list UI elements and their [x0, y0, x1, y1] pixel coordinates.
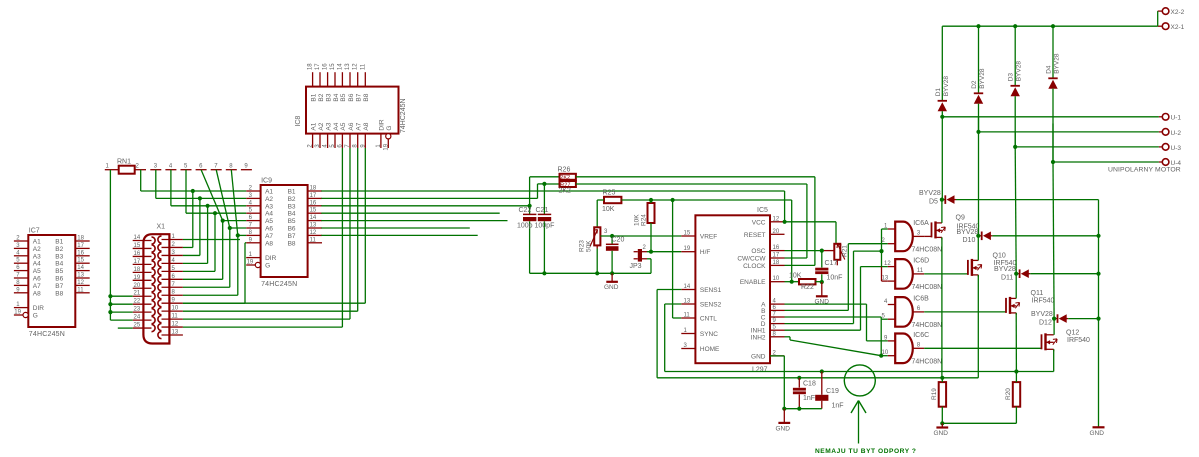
junction C18 top	[797, 376, 801, 380]
wire right rail to GND	[1098, 200, 1100, 427]
wire net B4 row dangling	[321, 212, 499, 214]
wire R27 to CW/CCW	[576, 183, 807, 185]
svg-text:74HC08N: 74HC08N	[912, 247, 943, 254]
wire RN1 pin 4 to row A3	[170, 170, 172, 206]
svg-text:BYV28: BYV28	[1031, 311, 1053, 318]
diode D1 BYV28	[938, 100, 947, 102]
svg-text:B6: B6	[55, 276, 63, 283]
wire R20 leads	[1015, 372, 1017, 383]
svg-text:VREF: VREF	[700, 234, 717, 241]
svg-text:12: 12	[884, 261, 891, 267]
IC7 pin 5 (A4)	[14, 262, 28, 264]
X1 pin 3	[162, 254, 183, 256]
svg-text:IC9: IC9	[261, 178, 272, 185]
svg-text:12: 12	[310, 230, 317, 236]
wire X1 pin 7 to row A6	[183, 286, 230, 288]
wire RN1 pin 1 down	[109, 170, 111, 320]
svg-text:11: 11	[360, 63, 366, 70]
IC5 pin 20 (RESET)	[770, 233, 785, 235]
svg-text:11: 11	[310, 237, 317, 243]
wire INH2 diagonal to IC6C.10	[785, 336, 791, 338]
X1 pin 22	[133, 303, 152, 305]
wire D5 anode to right rail	[956, 199, 1099, 201]
svg-text:A4: A4	[33, 261, 41, 268]
svg-text:A7: A7	[356, 122, 363, 130]
svg-text:74HC08N: 74HC08N	[912, 284, 943, 291]
svg-text:12: 12	[77, 280, 84, 286]
svg-text:CLOCK: CLOCK	[743, 263, 766, 270]
svg-text:B6: B6	[288, 226, 296, 233]
svg-text:B4: B4	[333, 93, 340, 101]
svg-text:C21: C21	[536, 207, 549, 214]
IC5 pin 12 (VCC)	[770, 221, 785, 223]
wire RN1 pin 2 to row A1	[140, 170, 142, 191]
svg-text:9: 9	[244, 164, 248, 170]
svg-text:1nF: 1nF	[803, 395, 815, 402]
svg-text:U-1: U-1	[1171, 115, 1182, 122]
svg-text:20: 20	[773, 229, 780, 235]
svg-text:3: 3	[604, 229, 608, 235]
svg-text:A5: A5	[265, 218, 273, 225]
svg-text:RESET: RESET	[744, 232, 766, 239]
RN1 pin 1	[105, 169, 119, 171]
wire VCC net	[784, 191, 786, 222]
X1 pin 9	[162, 302, 183, 304]
svg-text:DIR: DIR	[33, 305, 45, 312]
svg-text:C19: C19	[826, 388, 839, 395]
svg-text:A2: A2	[318, 122, 325, 130]
IC5 pin 13 (SENS2)	[681, 303, 695, 305]
IC6B pin 4	[888, 304, 895, 306]
IC IC8 74HC245N body (rotated)	[306, 87, 399, 134]
wire IC5 GND down	[770, 355, 784, 357]
svg-text:19: 19	[247, 260, 254, 266]
svg-text:14: 14	[684, 284, 691, 290]
X1 pin 2	[162, 246, 183, 248]
wire RN1 pin 7 to row A6	[216, 170, 230, 228]
svg-text:3: 3	[917, 230, 921, 236]
IC7 pin 7 (A6)	[14, 277, 28, 279]
svg-text:D2: D2	[971, 80, 978, 89]
svg-text:14: 14	[77, 265, 84, 271]
wire net B7 row dangling	[321, 234, 477, 236]
IC9 pin 2 (A1)	[246, 190, 260, 192]
AND gate IC6D 74HC08N	[895, 259, 913, 289]
X1 pin 10	[162, 310, 183, 312]
svg-text:2K2: 2K2	[559, 187, 572, 194]
wire X1 pin 25 stub	[118, 327, 133, 329]
X1 pin 18	[133, 271, 152, 273]
IC7 pin 4 (A3)	[14, 255, 28, 257]
IC9 pin 6 (A5)	[246, 220, 260, 222]
svg-text:6: 6	[199, 164, 203, 170]
svg-text:C18: C18	[803, 381, 816, 388]
svg-text:A1: A1	[310, 122, 317, 130]
svg-text:U-2: U-2	[1171, 130, 1182, 137]
junction D5 cathode	[940, 198, 944, 202]
svg-text:R20: R20	[1005, 388, 1012, 400]
transistor Q10 IRF540	[924, 273, 968, 275]
svg-text:15: 15	[134, 243, 141, 249]
X1 pin 21	[133, 295, 152, 297]
svg-text:R25: R25	[603, 189, 616, 196]
svg-text:17: 17	[134, 259, 141, 265]
X1 pin 23	[133, 311, 152, 313]
svg-text:ENABLE: ENABLE	[740, 279, 766, 286]
IC5 pin 11 (CNTL)	[681, 317, 695, 319]
svg-text:X2-1: X2-1	[1171, 24, 1185, 31]
wire R26 to CLOCK	[576, 176, 815, 178]
svg-text:74HC08N: 74HC08N	[912, 359, 943, 366]
junction	[108, 294, 112, 298]
svg-text:B3: B3	[288, 203, 296, 210]
wire R20 bottom to R19 bottom	[942, 422, 1016, 424]
junction CNTL/R25 row	[671, 198, 675, 202]
IC IC9 74HC245N body	[261, 185, 308, 277]
wire rail to D1	[941, 26, 943, 101]
diode D12 BYV28	[1057, 314, 1059, 323]
IC8 pin 9 (A8)	[364, 134, 366, 148]
svg-text:5: 5	[184, 164, 188, 170]
svg-text:4: 4	[884, 299, 888, 305]
terminal U-1	[942, 116, 1159, 118]
IC IC5 L297 body	[695, 215, 770, 363]
junction D11 cathode	[1014, 272, 1018, 276]
svg-text:CW/CCW: CW/CCW	[737, 256, 766, 263]
svg-text:C22: C22	[519, 207, 532, 214]
svg-text:Q12: Q12	[1066, 330, 1079, 337]
ground GND under R19	[941, 423, 943, 427]
X1 pin 24	[133, 319, 152, 321]
svg-text:10K: 10K	[634, 214, 641, 226]
svg-text:19: 19	[134, 275, 141, 281]
svg-text:IC6D: IC6D	[913, 258, 929, 265]
wire D4 down	[1052, 89, 1054, 162]
IC7 pin 17 (B2)	[75, 247, 89, 249]
wire phase2 column	[978, 117, 980, 132]
svg-text:D12: D12	[1039, 319, 1052, 326]
AND gate IC6A 74HC08N	[895, 222, 913, 252]
svg-text:16: 16	[77, 250, 84, 256]
junction C20 top	[610, 234, 614, 238]
svg-text:X2-2: X2-2	[1171, 9, 1185, 16]
wire D12 anode to right rail	[1068, 318, 1098, 320]
IC6D pin 13	[888, 280, 895, 282]
svg-text:17: 17	[310, 193, 317, 199]
wire R19 leads	[941, 378, 943, 382]
svg-text:10: 10	[172, 306, 179, 312]
IC8 pin 4 (A3)	[327, 134, 329, 148]
svg-text:10: 10	[773, 276, 780, 282]
terminal U-4	[1053, 161, 1159, 163]
svg-text:B5: B5	[340, 93, 347, 101]
svg-text:10nF: 10nF	[827, 275, 843, 282]
X1 pin 5	[162, 270, 183, 272]
svg-text:15: 15	[330, 63, 336, 70]
svg-text:8: 8	[917, 342, 921, 348]
svg-text:11: 11	[77, 287, 84, 293]
IC6A output pin 3	[913, 235, 924, 237]
IC9 pin 14 (B5)	[308, 220, 322, 222]
svg-text:B7: B7	[288, 233, 296, 240]
svg-text:B2: B2	[55, 246, 63, 253]
svg-text:21: 21	[134, 291, 141, 297]
annotation circle	[844, 365, 875, 396]
svg-text:D11: D11	[1001, 274, 1013, 281]
IC7 pin 9 (A8)	[14, 292, 28, 294]
IC8 pin 12 (B7)	[357, 72, 359, 86]
svg-text:A6: A6	[265, 226, 273, 233]
svg-text:R26: R26	[558, 167, 571, 174]
IC9 pin 11 (B8)	[308, 242, 322, 244]
wire R24 top	[650, 200, 652, 203]
IC9 pin 16 (B3)	[308, 205, 322, 207]
svg-text:R19: R19	[931, 388, 938, 400]
svg-text:C17: C17	[825, 260, 838, 267]
svg-text:18: 18	[134, 267, 141, 273]
svg-text:B3: B3	[55, 253, 63, 260]
svg-text:A3: A3	[265, 203, 273, 210]
wire net B6 row dangling	[321, 227, 470, 229]
IC9 pin 12 (B7)	[308, 234, 322, 236]
junction C22/IC9.16	[528, 204, 532, 208]
svg-text:IRF540: IRF540	[1067, 337, 1090, 344]
svg-text:R22: R22	[801, 284, 814, 291]
junction R19 top	[940, 376, 944, 380]
svg-text:B4: B4	[288, 211, 296, 218]
wire Q12 drain	[1053, 319, 1055, 335]
svg-text:10: 10	[882, 350, 889, 356]
wire rail to D2	[978, 26, 980, 93]
trimmer R21	[834, 244, 840, 260]
svg-text:A3: A3	[33, 253, 41, 260]
svg-text:D5: D5	[929, 199, 938, 206]
svg-text:A8: A8	[363, 122, 370, 130]
svg-text:B1: B1	[55, 239, 63, 246]
junction R23 gnd	[595, 271, 599, 275]
diode D11 BYV28	[1019, 269, 1021, 278]
wire X1 pin 4 to row A3	[183, 262, 208, 264]
svg-text:IRF540: IRF540	[1032, 297, 1055, 304]
junction OSC/C17	[820, 249, 824, 253]
IC9 pin 3 (A2)	[246, 197, 260, 199]
IC9 pin 5 (A4)	[246, 212, 260, 214]
capacitor C18 1nF	[798, 378, 800, 388]
resistor R24 10K	[648, 203, 655, 223]
diode D4 BYV28	[1048, 77, 1057, 79]
IC5 pin 5 (INH1)	[770, 329, 785, 331]
wire C17 bottom	[821, 274, 823, 282]
resistor R19	[939, 382, 946, 407]
IC9 pin 8 (A7)	[246, 234, 260, 236]
junction C21 gnd	[542, 271, 546, 275]
junction R20 top	[1014, 369, 1018, 373]
svg-text:SYNC: SYNC	[700, 331, 718, 338]
junction R19 gnd	[940, 421, 944, 425]
svg-text:14: 14	[337, 63, 343, 70]
IC5 pin 16 (OSC)	[770, 250, 785, 252]
wire net B5 row dangling	[321, 220, 507, 222]
IC9 pin 1 (DIR)	[246, 257, 260, 259]
X1 pin 13	[162, 334, 183, 336]
RN1 pin 6 stub	[196, 169, 207, 171]
wire JP3 pin1 to gnd rail	[647, 258, 651, 260]
IC7 pin 8 (A7)	[14, 284, 28, 286]
svg-text:BYV28: BYV28	[919, 190, 941, 197]
wire X1 pin 22	[110, 303, 132, 305]
wire D11 anode to right rail	[1030, 273, 1098, 275]
svg-text:CNTL: CNTL	[700, 316, 717, 323]
svg-text:74HC08N: 74HC08N	[912, 322, 943, 329]
junction row A4	[213, 211, 217, 215]
X1 pin 6	[162, 278, 183, 280]
junction rail/D4	[1051, 24, 1055, 28]
wire R26 left	[530, 176, 560, 178]
IC7 pin 15 (B4)	[75, 262, 89, 264]
svg-text:B3: B3	[325, 93, 332, 101]
svg-text:18: 18	[308, 63, 314, 70]
resistor R22 10K	[799, 279, 816, 284]
IC5 pin 18 (CLOCK)	[770, 264, 785, 266]
ground GND under IC5	[783, 409, 785, 423]
AND gate IC6B 74HC08N	[895, 297, 913, 327]
IC8 pin 17 (B2)	[319, 72, 321, 86]
svg-text:2: 2	[136, 164, 140, 170]
IC7 pin 16 (B3)	[75, 255, 89, 257]
svg-text:23: 23	[134, 307, 141, 313]
svg-text:HOME: HOME	[700, 346, 720, 353]
svg-text:IC6A: IC6A	[913, 220, 929, 227]
svg-text:B6: B6	[348, 93, 355, 101]
IC8 pin 14 (B5)	[341, 72, 343, 86]
svg-text:GND: GND	[934, 430, 949, 437]
svg-text:74HC245N: 74HC245N	[29, 331, 65, 338]
svg-text:A8: A8	[265, 240, 273, 247]
resistor R20	[1013, 382, 1020, 407]
wire RN1 pin 8 to row A7	[231, 170, 238, 236]
svg-text:12: 12	[353, 63, 359, 70]
svg-text:14: 14	[310, 215, 317, 221]
wire JP3 pin2 to H/F	[647, 251, 681, 253]
svg-text:B2: B2	[288, 196, 296, 203]
IC8 pin 8 (A7)	[357, 134, 359, 148]
svg-text:B8: B8	[55, 290, 63, 297]
wire R22 right	[816, 281, 822, 283]
wire ENABLE row	[785, 281, 800, 283]
transistor Q11 IRF540	[924, 311, 1006, 313]
svg-text:10K: 10K	[602, 206, 615, 213]
wire X1 pin 5 to row A4	[183, 270, 215, 272]
junction R25drop/ENABLE	[790, 280, 794, 284]
X1 pin 1	[162, 239, 183, 241]
IC6C pin 9	[888, 340, 895, 342]
junction row A5	[221, 219, 225, 223]
svg-text:17: 17	[773, 253, 780, 259]
svg-text:A7: A7	[33, 283, 41, 290]
junction rail/D2	[976, 24, 980, 28]
wire RN1 pin 3 to row A2	[155, 170, 157, 199]
IC5 pin 7 (C)	[770, 316, 785, 318]
svg-text:A5: A5	[340, 122, 347, 130]
IC8 pin 5 (A4)	[334, 134, 336, 148]
IC9 pin 7 (A6)	[246, 227, 260, 229]
svg-text:18: 18	[310, 186, 317, 192]
svg-text:6: 6	[917, 306, 921, 312]
svg-text:B1: B1	[310, 93, 317, 101]
wire C to IC6B.5	[785, 316, 882, 318]
wire net B1 row (IC9.18 to VCC turn)	[321, 190, 784, 192]
svg-text:D3: D3	[1008, 73, 1015, 82]
wire X1 pin 21	[110, 295, 132, 297]
capacitor C21	[538, 213, 551, 215]
X1 pin 25	[133, 327, 152, 329]
svg-text:Q10: Q10	[993, 253, 1006, 260]
svg-text:B2: B2	[318, 93, 325, 101]
junction JP3/R24/HF	[649, 250, 653, 254]
IC8 pin 2 (A1)	[312, 134, 314, 148]
RN1 pin 3 stub	[150, 169, 161, 171]
IC6B output pin 6	[913, 311, 924, 313]
IC8 pin 19 (G, inverted)	[387, 139, 389, 148]
svg-text:A2: A2	[265, 196, 273, 203]
IC7 pin 3 (A2)	[14, 247, 28, 249]
resistor R26	[560, 174, 576, 180]
svg-text:A4: A4	[333, 122, 340, 130]
diode D10 BYV28	[981, 232, 983, 241]
svg-text:74HC245N: 74HC245N	[400, 98, 407, 133]
svg-text:50K: 50K	[586, 240, 593, 252]
svg-text:B8: B8	[288, 240, 296, 247]
IC6C output pin 8	[913, 347, 924, 349]
wire X1 pin 1 stub	[183, 239, 240, 241]
svg-text:Q9: Q9	[956, 214, 965, 221]
svg-text:100pF: 100pF	[535, 223, 555, 230]
IC6C pin 10	[888, 355, 895, 357]
IC9 pin 18 (B1)	[308, 190, 322, 192]
wire X1 pin 8 to row A7	[183, 294, 238, 296]
svg-text:BYV28: BYV28	[979, 68, 986, 89]
svg-text:3: 3	[154, 164, 158, 170]
AND gate IC6C 74HC08N	[895, 334, 913, 364]
svg-text:A4: A4	[265, 211, 273, 218]
IC5 pin 17 (CW/CCW)	[770, 257, 785, 259]
IC8 pin 6 (A5)	[341, 134, 343, 148]
svg-text:IC6B: IC6B	[913, 296, 929, 303]
RN1 pin 5 stub	[181, 169, 192, 171]
svg-text:19: 19	[14, 310, 21, 316]
wire IC6B input tie	[880, 319, 882, 356]
svg-text:BYV28: BYV28	[1016, 61, 1023, 82]
svg-text:7: 7	[214, 164, 218, 170]
IC7 pin 12 (B7)	[75, 284, 89, 286]
ground GND under C20	[611, 273, 613, 281]
svg-text:INH2: INH2	[751, 334, 766, 341]
resistor R27	[560, 181, 576, 187]
wire net B2 row (IC9.17 to R27)	[321, 197, 537, 199]
potentiometer R23 50K	[594, 227, 600, 245]
IC7 pin 11 (B8)	[75, 292, 89, 294]
svg-text:A5: A5	[33, 268, 41, 275]
IC IC7 74HC245N body	[28, 235, 75, 327]
transistor Q12 IRF540	[924, 347, 1041, 349]
junction row A6	[228, 226, 232, 230]
wire R23 top to R25	[596, 200, 598, 227]
svg-text:14: 14	[134, 235, 141, 241]
junction row A3	[206, 204, 210, 208]
wire X1 pin 9 to IC9 A8	[183, 302, 245, 304]
svg-text:C20: C20	[612, 237, 625, 244]
wire X2 tie	[1157, 11, 1159, 26]
